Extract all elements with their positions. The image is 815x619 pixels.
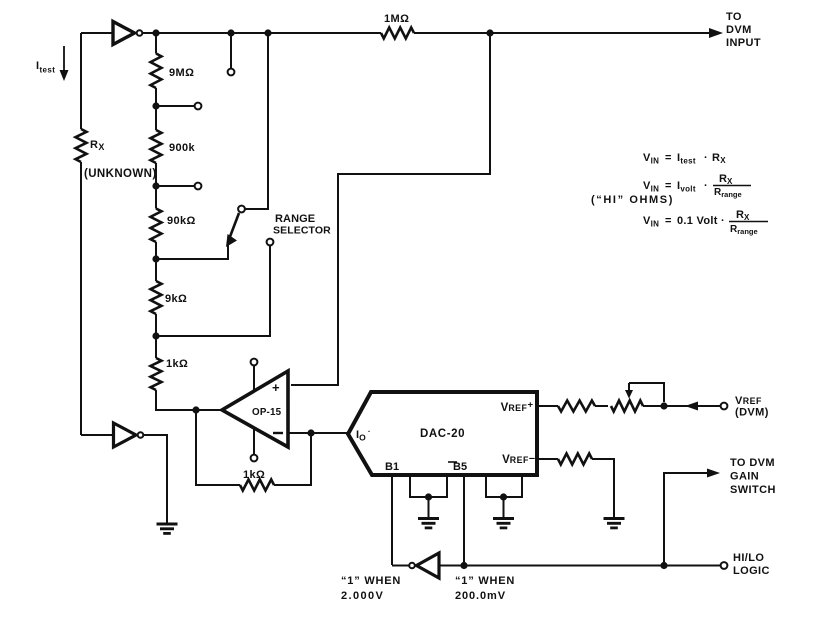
resistor RX (unknown) [76,129,87,162]
ground for B6-B8 [493,519,514,528]
resistor 900k [151,130,196,163]
arrowhead on VREF input wire (pointing left) [685,402,698,411]
label (UNKNOWN) [84,168,157,180]
svg-text:VREF–: VREF– [502,453,535,467]
wire range column from top rail [245,36,268,209]
ground for VREF- network [604,519,625,528]
terminal: OP-15 V+ pin [251,359,258,366]
terminal: switch pole circle [238,206,245,213]
terminal: open tap below top rail [228,69,235,76]
resistor 9M ohm [151,54,195,89]
svg-text:B1: B1 [385,461,399,473]
equation 2: VIN = Ivolt * RX/Rrange [643,173,751,199]
label '1' WHEN 200.0mV [455,575,515,602]
wire VREF+ pin to resistor [537,405,558,407]
wire VREF- pin to resistor [537,458,558,460]
wire U3 output to ground [144,435,168,523]
wire VREF- resistor to ground [592,459,614,518]
wire pins B2-B4 stubs and bracket [410,475,447,497]
wire VREF junction to input terminal [664,405,720,407]
svg-text:(UNKNOWN): (UNKNOWN) [84,168,157,180]
node: gain-switch branch / logic line [660,562,667,569]
node: B2-B4 tie [425,493,432,500]
node: output / feedback junction [307,429,314,436]
svg-text:900k: 900k [169,142,196,154]
node: op-amp left apex junction [192,406,199,413]
node: 9k/1k tap [152,332,159,339]
potentiometer wiper arrow and strap [625,383,664,402]
ground for B2-B4 [418,519,439,528]
wire top rail to U1 input [81,32,113,34]
ground below U3 [157,524,178,533]
node: top rail / sense line [486,29,493,36]
wire tap stub at 9M/900k node [156,105,194,107]
node: top rail / range column [264,29,271,36]
svg-text:1kΩ: 1kΩ [243,469,265,481]
node: 900k/90k tap [152,182,159,189]
node: top rail / 10M tap stub [227,29,234,36]
op-amp U2 OP-15 [222,371,288,447]
wire top rail from 1M to DVM arrow [414,32,712,34]
wire ladder: 9k to 1k [155,314,157,358]
terminal: open tap 900k/90k [195,183,202,190]
wire into inverter U2 [81,434,113,436]
wire ladder: top node to 9M [155,33,157,54]
equation 1: VIN = Itest * RX [643,152,726,166]
label TO DVM GAIN SWITCH [730,457,776,496]
wire left vertical above RX [80,33,82,129]
wire tap stub at 900k/90k node [156,185,194,187]
inverter U5 (B1 logic, points left) [409,553,439,578]
label RX [90,139,105,152]
resistor 1k ohm (ladder) [151,358,189,390]
buffer U1 (unity-gain buffer, top left) [113,22,142,45]
label TO DVM INPUT [726,11,761,49]
label RANGE SELECTOR [273,213,331,237]
resistor VREF+ series [558,401,595,412]
arrowhead to DVM input [709,28,723,38]
wire sense line (top node to op-amp +) [291,33,490,385]
svg-text:9MΩ: 9MΩ [169,67,194,79]
label (HI OHMS) [591,194,674,206]
wire feedback left leg [196,410,240,485]
terminal: VREF (DVM) input [721,403,728,410]
DAC U4 DAC-20 body [348,392,537,475]
resistor VREF- series [558,454,592,465]
wire ladder: 90k to 9k [155,242,157,281]
node: B6-B8 tie [500,493,507,500]
label HI/LO LOGIC [733,552,770,577]
wire B1 to inverter bubble [392,565,409,567]
terminal: switch throw circle [267,239,274,246]
wire feedback right leg [274,433,311,485]
label '1' WHEN 2.000V [341,575,401,602]
wire ladder bottom to op-amp node [156,390,222,410]
switch arm with wiper arrowhead (range selector) [226,213,239,247]
wire left vertical below RX [80,162,82,435]
node: 90k/9k (switch contact node) [152,255,159,262]
node: top rail / ladder top [152,29,159,36]
wire pot end to VREF junction [643,405,664,407]
svg-text:1kΩ: 1kΩ [166,358,188,370]
resistor 1k ohm (feedback) [240,469,274,491]
potentiometer element [611,401,643,412]
svg-text:90kΩ: 90kΩ [167,215,196,227]
arrowhead to DVM gain switch [707,469,720,478]
terminal: OP-15 V- pin [251,455,258,462]
wire ladder: 900k to 90k [155,163,157,209]
svg-text:DAC-20: DAC-20 [420,428,465,440]
resistor 9k ohm [151,281,188,314]
svg-text:(“HI” OHMS): (“HI” OHMS) [591,194,674,206]
inverter U3 (bottom left) [114,423,144,447]
wire OP-15 V+ pin stub [253,366,255,390]
node: pot strap / VREF line [660,402,667,409]
terminal: open tap 9M/900k [195,103,202,110]
wire between VREF+ resistor and pot [595,405,608,407]
wire logic line [439,565,720,567]
wire OP-15 V- pin stub [253,429,255,454]
svg-text:9kΩ: 9kΩ [165,293,187,305]
wire pins B6-B8 stubs and bracket [486,475,522,497]
wire switch contact from 90k/9k node [156,245,228,259]
wire U1 output to top node [143,32,382,34]
wire OP-15 output to DAC IO [288,432,348,434]
resistor 90k ohm [151,209,196,243]
wire range tap from 9k/1k node [156,246,270,337]
wire B6-B8 tie to ground [503,497,505,518]
resistor 1M ohm [381,13,414,39]
wire ladder: 9M to 900k [155,88,157,130]
wire stub to open tap on top rail [230,36,232,69]
node: B5 / logic line [460,562,467,569]
svg-text:1MΩ: 1MΩ [384,13,409,25]
arrow Itest (current direction) [60,46,69,81]
terminal: HI/LO logic input [721,562,728,569]
svg-text:OP-15: OP-15 [252,407,282,418]
wire pin B5 down to logic line [463,475,465,565]
wire B2-B4 tie to ground [428,497,430,518]
svg-text:HI/LOLOGIC: HI/LOLOGIC [733,552,770,577]
equation 3: VIN = 0.1 Volt * RX/Rrange [643,209,768,236]
wire pin B1 down [391,475,393,565]
svg-text:+: + [272,380,280,395]
wire to DVM gain switch [664,473,708,565]
label Itest [36,60,55,75]
label VREF (DVM) [735,395,769,419]
node: 9M/900k tap [152,102,159,109]
